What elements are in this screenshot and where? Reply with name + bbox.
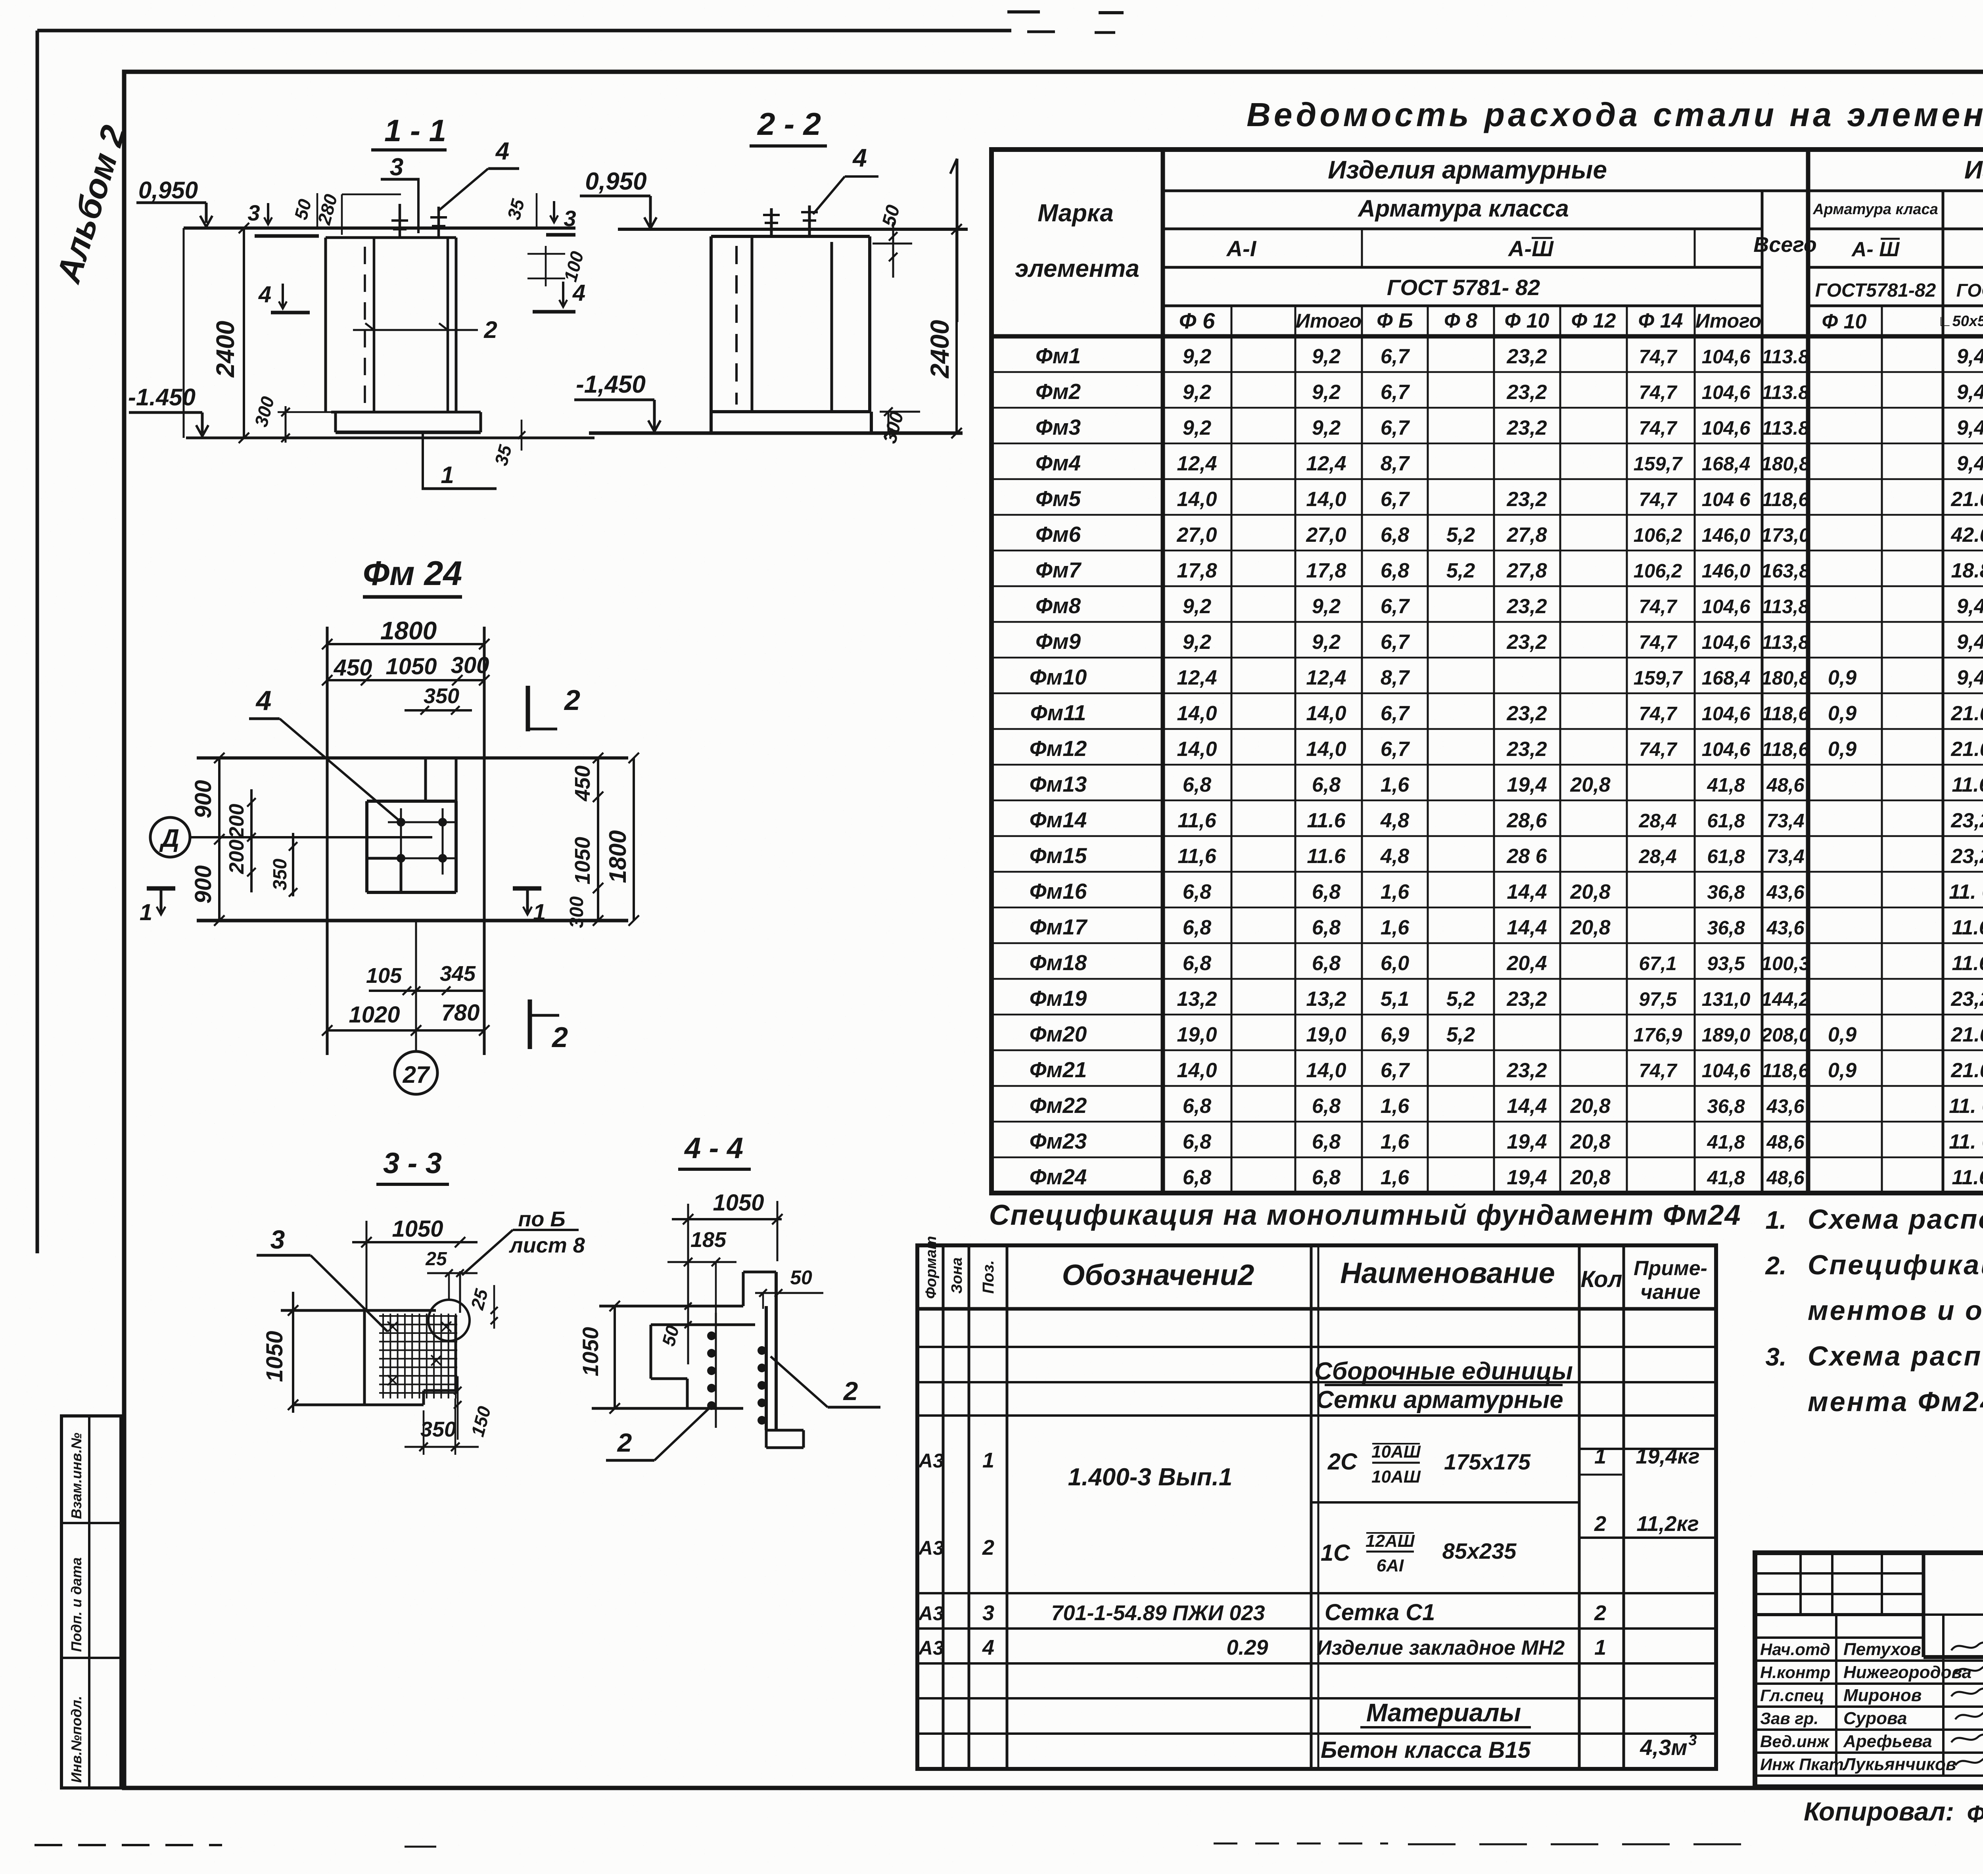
dim extension vertical left [183, 228, 185, 438]
svg-text:0,9: 0,9 [1828, 702, 1856, 725]
svg-text:Ф 6: Ф 6 [1179, 308, 1215, 333]
svg-text:Фм14: Фм14 [1030, 808, 1087, 832]
svg-text:23,2: 23,2 [1506, 595, 1547, 618]
signature row Нач.отд [1755, 1659, 1983, 1662]
svg-text:4 - 4: 4 - 4 [684, 1132, 743, 1164]
svg-text:17,8: 17,8 [1306, 559, 1346, 582]
svg-text:20,8: 20,8 [1570, 1095, 1610, 1118]
svg-text:2400: 2400 [925, 320, 954, 379]
svg-text:14,0: 14,0 [1177, 488, 1217, 511]
svg-text:1020: 1020 [349, 1002, 400, 1028]
svg-text:1.400-3 Вып.1: 1.400-3 Вып.1 [1068, 1464, 1233, 1491]
outline 4-4 vertical plate [742, 1272, 745, 1306]
svg-text:Фм6: Фм6 [1036, 522, 1081, 547]
svg-text:6,0: 6,0 [1381, 952, 1409, 975]
svg-text:6,7: 6,7 [1381, 1059, 1410, 1082]
svg-text:ментов и общие указания на л: ментов и общие указания на листе 4. [1808, 1295, 1983, 1326]
svg-text:19,4: 19,4 [1507, 773, 1547, 796]
svg-text:Фм4: Фм4 [1036, 451, 1081, 475]
svg-text:350: 350 [270, 859, 291, 890]
svg-text:21.0: 21.0 [1950, 738, 1983, 761]
drawing: section 3-3 [257, 1147, 585, 1455]
svg-text:Лукьянчиков: Лукьянчиков [1842, 1755, 1956, 1774]
svg-text:189,0: 189,0 [1702, 1024, 1751, 1046]
svg-text:23,2: 23,2 [1950, 988, 1983, 1011]
svg-text:8,7: 8,7 [1381, 666, 1410, 689]
row line above Фм9 [991, 621, 1983, 623]
svg-text:10АШ: 10АШ [1371, 1442, 1421, 1462]
svg-text:6,8: 6,8 [1312, 773, 1341, 796]
svg-text:Марка: Марка [1038, 199, 1113, 227]
svg-text:21.0: 21.0 [1950, 488, 1983, 511]
svg-text:Сетка С1: Сетка С1 [1325, 1600, 1435, 1625]
svg-text:6,7: 6,7 [1381, 595, 1410, 618]
svg-text:1: 1 [982, 1448, 994, 1472]
svg-text:Фм13: Фм13 [1030, 772, 1087, 796]
ground line top [618, 228, 968, 231]
row line above Фм4 [991, 443, 1983, 445]
svg-text:6АI: 6АI [1377, 1556, 1404, 1575]
signature rows [1755, 1636, 1924, 1639]
svg-text:чание: чание [1640, 1281, 1700, 1304]
svg-text:ГОСТ 5781- 82: ГОСТ 5781- 82 [1387, 275, 1540, 300]
svg-text:9,2: 9,2 [1183, 381, 1211, 404]
svg-text:элемента: элемента [1015, 255, 1139, 282]
svg-text:12АШ: 12АШ [1365, 1531, 1415, 1551]
svg-text:159,7: 159,7 [1634, 453, 1683, 475]
svg-text:11. 6: 11. 6 [1949, 1095, 1983, 1118]
svg-text:43,6: 43,6 [1766, 1096, 1805, 1117]
svg-text:1,6: 1,6 [1381, 1130, 1410, 1153]
svg-text:74,7: 74,7 [1639, 418, 1678, 439]
mesh grid [382, 1314, 384, 1398]
svg-text:Фм20: Фм20 [1030, 1022, 1087, 1046]
svg-text:6,7: 6,7 [1381, 381, 1410, 404]
svg-text:1,6: 1,6 [1381, 880, 1410, 903]
svg-text:21.0: 21.0 [1950, 702, 1983, 725]
row line above Фм5 [991, 478, 1983, 480]
svg-text:1: 1 [1594, 1636, 1606, 1659]
svg-text:Фм12: Фм12 [1030, 736, 1087, 761]
svg-text:Наименование: Наименование [1340, 1256, 1555, 1289]
svg-text:9,2: 9,2 [1183, 631, 1211, 654]
svg-text:97,5: 97,5 [1639, 989, 1677, 1010]
scan artifact dashes top [1007, 10, 1040, 13]
row line above Фм10 [991, 657, 1983, 659]
svg-text:23,2: 23,2 [1506, 988, 1547, 1011]
outline 4-4 top plate [599, 1305, 743, 1308]
svg-text:2: 2 [551, 1022, 568, 1053]
steel table outer border [991, 150, 1983, 1193]
svg-text:Фм22: Фм22 [1030, 1093, 1087, 1118]
row line above Фм13 [991, 764, 1983, 766]
svg-text:А3: А3 [918, 1537, 944, 1559]
svg-text:1.: 1. [1765, 1206, 1786, 1234]
svg-text:6,7: 6,7 [1381, 488, 1410, 511]
scan artifact checkmark left of table [956, 159, 959, 322]
svg-text:3: 3 [390, 153, 403, 181]
svg-text:20,8: 20,8 [1570, 880, 1610, 903]
svg-text:345: 345 [440, 962, 476, 986]
svg-text:173,0: 173,0 [1761, 525, 1810, 546]
svg-text:74,7: 74,7 [1639, 346, 1678, 368]
anchor bolt left [399, 204, 401, 238]
svg-text:Ф 10: Ф 10 [1505, 309, 1550, 332]
svg-text:2: 2 [1594, 1512, 1606, 1536]
svg-text:1,6: 1,6 [1381, 916, 1410, 939]
svg-text:1: 1 [1594, 1444, 1606, 1468]
svg-text:20,8: 20,8 [1570, 916, 1610, 939]
svg-text:5,2: 5,2 [1446, 1023, 1475, 1046]
svg-text:23,2: 23,2 [1506, 345, 1547, 368]
svg-text:11. 6: 11. 6 [1949, 880, 1983, 903]
svg-text:20,8: 20,8 [1570, 1166, 1610, 1189]
right dim 450 1050 300 [597, 758, 599, 921]
svg-text:Н.контр: Н.контр [1760, 1663, 1830, 1682]
svg-text:1,6: 1,6 [1381, 773, 1410, 796]
step in inner square [367, 857, 401, 860]
svg-text:74,7: 74,7 [1639, 632, 1678, 653]
svg-text:Схема расположения сетки подош: Схема расположения сетки подошвы фунда- [1808, 1341, 1983, 1372]
svg-text:93,5: 93,5 [1707, 953, 1745, 974]
svg-text:43,6: 43,6 [1766, 882, 1805, 903]
svg-text:19,0: 19,0 [1306, 1023, 1346, 1046]
row line above Фм6 [991, 514, 1983, 516]
svg-text:10АШ: 10АШ [1371, 1467, 1421, 1487]
svg-text:14,0: 14,0 [1306, 488, 1346, 511]
svg-text:Ф 10: Ф 10 [1822, 310, 1867, 333]
svg-text:780: 780 [441, 1000, 480, 1026]
svg-text:74,7: 74,7 [1639, 1060, 1678, 1082]
svg-text:105: 105 [366, 964, 402, 988]
svg-text:200: 200 [225, 840, 248, 875]
axis line to circle 27 [415, 921, 417, 1051]
svg-text:4: 4 [255, 685, 272, 716]
svg-text:4: 4 [495, 138, 509, 165]
svg-text:1050: 1050 [713, 1190, 764, 1216]
row line above Фм11 [991, 692, 1983, 694]
header bottom thick line [991, 334, 1983, 339]
inner column square [367, 800, 456, 803]
svg-text:Фм15: Фм15 [1030, 843, 1087, 868]
svg-text:2.: 2. [1765, 1251, 1786, 1280]
svg-text:Петухов: Петухов [1843, 1640, 1921, 1659]
svg-text:А- Ш: А- Ш [1851, 238, 1900, 261]
svg-text:104 6: 104 6 [1702, 489, 1751, 510]
svg-text:6,7: 6,7 [1381, 416, 1410, 439]
svg-text:14,0: 14,0 [1177, 738, 1217, 761]
svg-text:27,8: 27,8 [1506, 559, 1547, 582]
svg-text:Д: Д [159, 824, 179, 852]
svg-text:2400: 2400 [211, 321, 240, 378]
detail circle [428, 1300, 470, 1341]
svg-text:13,2: 13,2 [1306, 988, 1346, 1011]
svg-text:Вед.инж: Вед.инж [1760, 1732, 1830, 1751]
svg-text:43,6: 43,6 [1766, 917, 1805, 939]
svg-text:23,2: 23,2 [1506, 381, 1547, 404]
svg-text:9,2: 9,2 [1183, 416, 1211, 439]
svg-text:1С: 1С [1321, 1540, 1350, 1566]
plan outer square extended lines [197, 756, 628, 760]
svg-text:9,4: 9,4 [1957, 345, 1983, 368]
svg-text:11,2кг: 11,2кг [1636, 1512, 1699, 1536]
svg-text:12,4: 12,4 [1306, 666, 1346, 689]
svg-text:176,9: 176,9 [1634, 1024, 1682, 1046]
svg-text:6,8: 6,8 [1183, 773, 1211, 796]
svg-text:Инж Пкат: Инж Пкат [1760, 1755, 1844, 1774]
svg-text:17,8: 17,8 [1177, 559, 1217, 582]
svg-text:-1.450: -1.450 [128, 384, 196, 410]
svg-text:23,2: 23,2 [1506, 738, 1547, 761]
svg-text:2: 2 [843, 1376, 858, 1406]
svg-text:8,7: 8,7 [1381, 452, 1410, 475]
svg-text:14,4: 14,4 [1507, 916, 1547, 939]
svg-text:20,8: 20,8 [1570, 773, 1610, 796]
svg-text:Подп. и дата: Подп. и дата [68, 1558, 84, 1652]
svg-text:Спецификация к схеме расположе: Спецификация к схеме расположения фунда- [1808, 1249, 1983, 1280]
svg-text:Фм3: Фм3 [1036, 415, 1081, 439]
svg-text:113,8: 113,8 [1762, 632, 1810, 653]
svg-text:6,7: 6,7 [1381, 345, 1410, 368]
svg-text:6,8: 6,8 [1312, 880, 1341, 903]
svg-text:104,6: 104,6 [1702, 632, 1751, 653]
svg-text:Сетки арматурные: Сетки арматурные [1316, 1386, 1563, 1414]
svg-text:Ф 14: Ф 14 [1638, 309, 1683, 332]
svg-text:4: 4 [258, 282, 271, 307]
svg-text:6,8: 6,8 [1183, 880, 1211, 903]
svg-text:113.8: 113.8 [1762, 418, 1810, 439]
inner wall lines [373, 238, 376, 412]
svg-text:Ф Б: Ф Б [1377, 309, 1413, 332]
svg-text:300: 300 [566, 896, 587, 928]
svg-text:27,0: 27,0 [1176, 524, 1217, 547]
svg-text:4,3м: 4,3м [1640, 1735, 1687, 1760]
svg-text:Фм16: Фм16 [1030, 879, 1087, 903]
svg-text:Фм17: Фм17 [1030, 915, 1088, 939]
svg-text:73,4: 73,4 [1766, 846, 1804, 867]
svg-text:450: 450 [334, 655, 372, 681]
svg-text:27: 27 [403, 1061, 430, 1088]
row line above Фм21 [991, 1049, 1983, 1051]
svg-text:Материалы: Материалы [1366, 1698, 1521, 1727]
svg-text:Спецификация на монолитный: Спецификация на монолитный фундамент Фм2… [989, 1199, 1741, 1231]
svg-text:1: 1 [533, 900, 546, 925]
svg-text:48,6: 48,6 [1766, 1132, 1805, 1153]
anchor bolts dots [397, 818, 405, 827]
svg-text:36,8: 36,8 [1707, 882, 1745, 903]
svg-text:Фезаиз: Фезаиз [1966, 1798, 1983, 1828]
svg-text:Фм18: Фм18 [1030, 950, 1087, 975]
svg-text:Фм10: Фм10 [1030, 665, 1087, 689]
svg-text:74,7: 74,7 [1639, 489, 1678, 510]
svg-text:6,8: 6,8 [1183, 1095, 1211, 1118]
svg-text:74,7: 74,7 [1639, 703, 1678, 725]
outline 4-4 bottom [592, 1407, 743, 1410]
title block outer [1755, 1553, 1983, 1787]
left dim 900 900 [218, 758, 221, 921]
svg-text:18.8: 18.8 [1951, 559, 1983, 582]
svg-text:Изделие закладное МН2: Изделие закладное МН2 [1317, 1636, 1565, 1659]
svg-text:Взам.инв.№: Взам.инв.№ [68, 1433, 84, 1519]
row line above Фм7 [991, 550, 1983, 552]
svg-text:1800: 1800 [604, 830, 631, 883]
revision grid top left [1755, 1572, 1924, 1575]
svg-text:А3: А3 [918, 1637, 944, 1659]
svg-text:11.6: 11.6 [1952, 773, 1983, 796]
section mark 2 top [526, 686, 530, 731]
inner dashed line [364, 247, 366, 408]
svg-text:9,2: 9,2 [1312, 381, 1341, 404]
footing slab [711, 410, 871, 413]
svg-text:12,4: 12,4 [1177, 666, 1217, 689]
svg-text:9,4: 9,4 [1957, 666, 1983, 689]
svg-text:6,8: 6,8 [1312, 1095, 1341, 1118]
svg-text:Гл.спец: Гл.спец [1760, 1686, 1824, 1705]
svg-text:2: 2 [483, 317, 497, 343]
svg-text:106,2: 106,2 [1634, 560, 1682, 582]
svg-text:6,8: 6,8 [1381, 559, 1409, 582]
drawing: section 2-2 [574, 106, 968, 446]
signature columns [1835, 1615, 1837, 1776]
signature row Гл.спец [1755, 1705, 1983, 1708]
left dim 350 [292, 833, 294, 896]
svg-text:6,9: 6,9 [1381, 1023, 1409, 1046]
svg-text:19,4: 19,4 [1507, 1166, 1547, 1189]
svg-text:104,6: 104,6 [1702, 346, 1751, 368]
svg-text:185: 185 [690, 1228, 727, 1252]
svg-text:106,2: 106,2 [1634, 525, 1682, 546]
svg-text:900: 900 [190, 780, 216, 819]
spec row lines [917, 1346, 1716, 1348]
svg-text:2: 2 [982, 1536, 994, 1559]
svg-text:159,7: 159,7 [1634, 668, 1683, 689]
svg-text:6,8: 6,8 [1183, 952, 1211, 975]
svg-text:11.6: 11.6 [1952, 952, 1983, 975]
svg-text:4: 4 [852, 144, 867, 172]
bottom dashed scan lines [35, 1844, 222, 1846]
svg-text:9,2: 9,2 [1312, 631, 1341, 654]
ground line bottom -1.450 [186, 437, 595, 439]
stud dots left column [715, 1313, 717, 1428]
axis circle 27 [395, 1051, 437, 1094]
svg-text:А3: А3 [918, 1450, 944, 1472]
svg-text:Схема расположения фундаментов: Схема расположения фундаментов на листе … [1808, 1204, 1983, 1235]
svg-text:Миронов: Миронов [1843, 1686, 1922, 1705]
svg-text:6,8: 6,8 [1312, 916, 1341, 939]
svg-text:11.6: 11.6 [1952, 916, 1983, 939]
svg-text:118,6: 118,6 [1762, 703, 1810, 725]
svg-text:12,4: 12,4 [1306, 452, 1346, 475]
svg-text:6,8: 6,8 [1381, 524, 1409, 547]
svg-text:11,6: 11,6 [1178, 809, 1216, 832]
svg-text:23,2: 23,2 [1506, 702, 1547, 725]
svg-text:9,2: 9,2 [1312, 345, 1341, 368]
svg-text:Изделия закладные: Изделия закладные [1964, 155, 1983, 184]
svg-text:6,7: 6,7 [1381, 738, 1410, 761]
svg-text:11.6: 11.6 [1307, 845, 1346, 868]
stud dots right column [758, 1346, 766, 1355]
svg-text:146,0: 146,0 [1702, 525, 1751, 546]
svg-text:0.29: 0.29 [1226, 1636, 1268, 1659]
svg-text:А-Ш: А-Ш [1507, 236, 1554, 261]
doc number cell [1922, 1553, 1925, 1657]
svg-text:118,6: 118,6 [1762, 739, 1810, 760]
svg-text:74,7: 74,7 [1639, 739, 1678, 760]
svg-text:Формат: Формат [923, 1236, 940, 1299]
svg-text:19,4кг: 19,4кг [1636, 1444, 1699, 1468]
svg-text:Арматура клаcа: Арматура клаcа [1812, 201, 1938, 218]
svg-text:0,9: 0,9 [1828, 738, 1856, 761]
svg-text:13,2: 13,2 [1177, 988, 1217, 1011]
svg-text:0,9: 0,9 [1828, 1059, 1856, 1082]
svg-text:9,2: 9,2 [1183, 595, 1211, 618]
svg-text:6,8: 6,8 [1183, 1166, 1211, 1189]
row line above Фм2 [991, 371, 1983, 373]
svg-text:104,6: 104,6 [1702, 703, 1751, 725]
svg-text:2: 2 [1594, 1601, 1606, 1625]
svg-text:28,4: 28,4 [1638, 846, 1676, 867]
svg-text:4: 4 [982, 1636, 994, 1659]
svg-text:14,0: 14,0 [1306, 738, 1346, 761]
svg-text:104,6: 104,6 [1702, 418, 1751, 439]
svg-text:5,2: 5,2 [1446, 524, 1475, 547]
svg-text:Фм5: Фм5 [1036, 486, 1082, 511]
svg-text:Бетон класса В15: Бетон класса В15 [1321, 1737, 1531, 1763]
section mark 2 bottom [528, 999, 532, 1049]
column top edge [326, 236, 456, 239]
svg-text:61,8: 61,8 [1707, 846, 1745, 867]
svg-text:6,8: 6,8 [1312, 1130, 1341, 1153]
svg-text:28,4: 28,4 [1638, 810, 1676, 832]
svg-text:104,6: 104,6 [1702, 1060, 1751, 1082]
svg-text:104,6: 104,6 [1702, 382, 1751, 403]
svg-text:Зона: Зона [949, 1257, 965, 1294]
svg-text:73,4: 73,4 [1766, 810, 1804, 832]
section mark 1 right [513, 886, 541, 891]
drawing: plan Fm24 [140, 554, 639, 1094]
svg-text:350: 350 [420, 1418, 456, 1441]
svg-text:6,7: 6,7 [1381, 631, 1410, 654]
svg-text:11.6: 11.6 [1952, 1166, 1983, 1189]
footing slab [331, 411, 457, 414]
row line above Фм23 [991, 1121, 1983, 1123]
svg-text:1,6: 1,6 [1381, 1095, 1410, 1118]
svg-text:Сборочные единицы: Сборочные единицы [1314, 1358, 1573, 1385]
svg-text:74,7: 74,7 [1639, 596, 1678, 618]
spec verticals [942, 1245, 945, 1769]
row line above Фм22 [991, 1085, 1983, 1087]
row line above Фм15 [991, 835, 1983, 837]
svg-text:Фм8: Фм8 [1036, 593, 1081, 618]
row line above Фм3 [991, 407, 1983, 409]
svg-text:23,2: 23,2 [1506, 631, 1547, 654]
svg-text:61,8: 61,8 [1707, 810, 1745, 832]
row line above Фм8 [991, 585, 1983, 587]
svg-text:Нижегородова: Нижегородова [1843, 1663, 1971, 1682]
svg-text:5,2: 5,2 [1446, 988, 1475, 1011]
svg-text:14,0: 14,0 [1177, 702, 1217, 725]
svg-text:9,4: 9,4 [1957, 452, 1983, 475]
svg-text:350: 350 [424, 684, 459, 708]
drawing: section 4-4 [578, 1132, 880, 1460]
svg-text:4,8: 4,8 [1380, 809, 1409, 832]
svg-text:ГОСТ(.)9-86: ГОСТ(.)9-86 [1956, 280, 1983, 301]
svg-text:21.0: 21.0 [1950, 1023, 1983, 1046]
svg-text:мента Фм24 на листе 15.: мента Фм24 на листе 15. [1808, 1386, 1983, 1417]
svg-text:1050: 1050 [571, 837, 595, 884]
svg-text:14,4: 14,4 [1507, 880, 1547, 903]
outline 4-4 left step [650, 1325, 652, 1379]
